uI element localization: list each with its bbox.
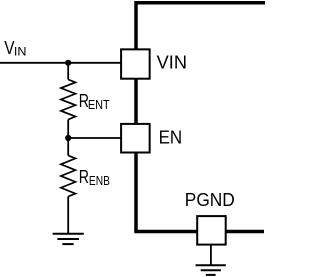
pin VIN (terminal box) xyxy=(121,49,150,78)
svg-text:PGND: PGND xyxy=(185,190,235,210)
resistor R_ENT (zigzag body) xyxy=(61,80,76,120)
svg-text:IN: IN xyxy=(14,44,27,58)
wire: PGND pin down to ground xyxy=(210,245,212,266)
node junction: R_ENT / R_ENB / EN pin xyxy=(65,135,71,141)
wire: VIN input net from left edge to VIN pin xyxy=(0,62,121,64)
svg-text:EN: EN xyxy=(159,127,183,147)
IC block outline (bottom edge) xyxy=(134,230,264,234)
wire: R_ENT bottom to node 2 xyxy=(67,120,69,139)
svg-text:VIN: VIN xyxy=(157,53,187,73)
wire: node 1 down to R_ENT top xyxy=(67,63,69,80)
node junction: V_IN / R_ENT / VIN pin xyxy=(65,60,71,66)
resistor R_ENB (zigzag body) xyxy=(61,156,76,197)
svg-text:R: R xyxy=(79,167,89,187)
svg-text:ENT: ENT xyxy=(88,97,110,112)
IC block outline (top and left edges) xyxy=(136,3,265,232)
ground symbol (below PGND pin) xyxy=(196,265,226,275)
ground symbol (left, below R_ENB) xyxy=(53,234,84,244)
pin PGND (terminal box) xyxy=(197,216,226,245)
svg-text:ENB: ENB xyxy=(89,173,110,188)
wire: node 2 down to R_ENB top xyxy=(67,138,69,156)
wire: R_ENB bottom to ground xyxy=(67,197,69,234)
pin EN (terminal box) xyxy=(121,124,150,153)
wire: node 2 to EN pin xyxy=(68,137,121,139)
